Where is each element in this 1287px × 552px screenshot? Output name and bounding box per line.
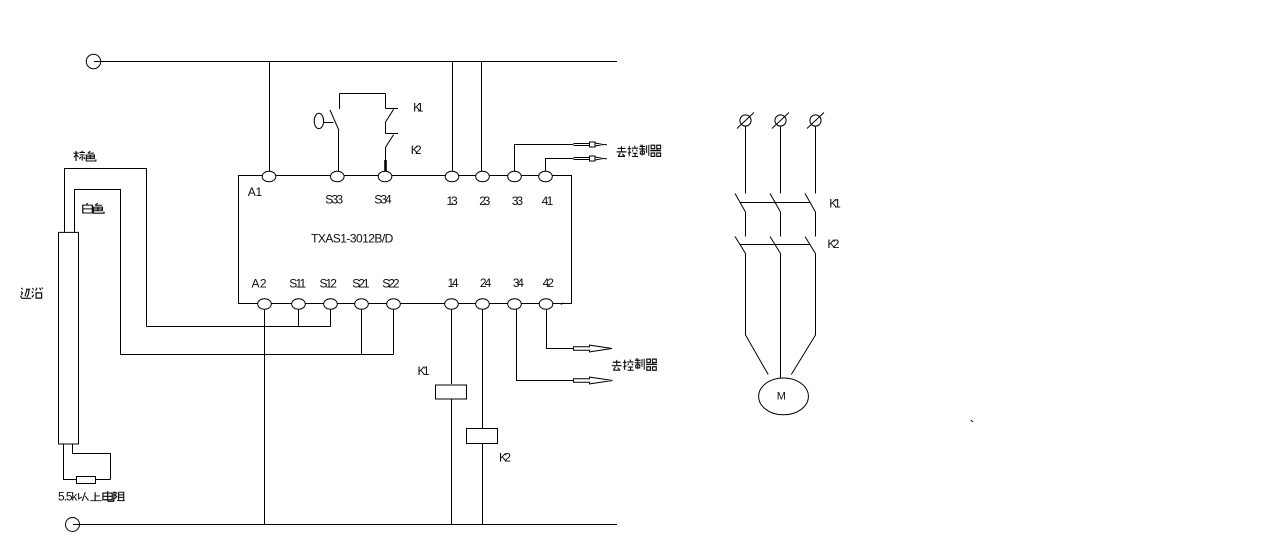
pin 24 bbox=[476, 299, 490, 310]
svg-text:24: 24 bbox=[480, 276, 492, 290]
contactor K1 linkage bar bbox=[741, 202, 811, 204]
svg-text:TXAS1-3012B/D: TXAS1-3012B/D bbox=[311, 231, 394, 245]
wire top supply rail bbox=[94, 61, 617, 63]
wire blade to S33 bbox=[338, 131, 340, 172]
svg-text:23: 23 bbox=[479, 194, 490, 208]
pushbutton SB actuator head bbox=[314, 113, 323, 128]
wire pin 24 to coil K2 bbox=[482, 309, 484, 429]
pin A1 bbox=[262, 171, 276, 182]
phase terminal L1 slash bbox=[737, 113, 754, 129]
wire node S11-S12 link bbox=[147, 326, 331, 328]
wire S33 upper lead bbox=[339, 94, 341, 110]
label 边沿 (edge) bbox=[20, 287, 42, 298]
svg-text:M: M bbox=[777, 391, 786, 403]
wire coil K1 to bottom rail bbox=[451, 399, 453, 525]
svg-text:5.5k: 5.5k bbox=[58, 489, 78, 503]
contact K2 (NC) fixed bar bbox=[386, 133, 399, 135]
stray tick mark bbox=[971, 420, 973, 422]
svg-text:13: 13 bbox=[447, 194, 459, 208]
pin 13 bbox=[445, 171, 459, 182]
pin S21 bbox=[355, 299, 369, 310]
svg-text:K1: K1 bbox=[829, 196, 841, 210]
wire K2 contact to S34 bbox=[385, 148, 387, 160]
label 去控制器 (to controller, upper) bbox=[617, 145, 662, 157]
wire L3 to K1 contact bbox=[815, 126, 817, 194]
contactor K2 pole 2 blade bbox=[770, 237, 781, 254]
pin 23 bbox=[476, 171, 490, 182]
connector arrow (from 41) bbox=[574, 156, 608, 161]
svg-text:A1: A1 bbox=[248, 185, 263, 199]
wire rail to A1 bbox=[269, 62, 271, 172]
wire node S21-S22 link bbox=[121, 354, 394, 356]
phase terminal L3 slash bbox=[807, 113, 824, 129]
wire sensor right bottom lead bbox=[73, 444, 111, 480]
pushbutton SB actuator link bbox=[324, 122, 334, 124]
wire sensor left bottom lead bbox=[64, 444, 77, 480]
svg-text:K1: K1 bbox=[413, 101, 424, 115]
wire thick lead into S34 bbox=[384, 160, 387, 171]
contact K1 (NC) fixed bar bbox=[386, 108, 399, 110]
pin 34 bbox=[508, 299, 522, 310]
wire K1 to K2 pole 2 bbox=[780, 212, 782, 237]
label 去控制器 (to controller, lower) bbox=[612, 358, 657, 370]
wire K2 pole3 to motor bbox=[791, 254, 815, 375]
contactor K2 linkage bar bbox=[741, 244, 811, 246]
resistor R1 (5.5k) body bbox=[77, 477, 96, 484]
relay coil K2 body bbox=[467, 429, 498, 444]
wire pin 34 to arrow bbox=[517, 309, 574, 381]
wire brown lead (sensor to S11/S12 net) bbox=[65, 169, 147, 327]
svg-text:K2: K2 bbox=[499, 451, 511, 465]
label 白色 (white) bbox=[83, 203, 104, 213]
wire S21 drop bbox=[361, 309, 363, 355]
phase terminal L3 bbox=[810, 115, 821, 126]
wire K2 pole1 to motor bbox=[746, 254, 769, 375]
safety relay U1 TXAS1-3012B/D body bbox=[239, 176, 572, 304]
svg-text:K1: K1 bbox=[418, 364, 430, 378]
wire resistor right lead bbox=[96, 479, 111, 481]
svg-text:41: 41 bbox=[542, 194, 554, 208]
pin 41 bbox=[539, 171, 553, 182]
contactor K2 pole 3 blade bbox=[805, 237, 816, 254]
wire bottom supply rail bbox=[73, 524, 617, 526]
pin S33 bbox=[331, 171, 345, 182]
pin S34 bbox=[378, 171, 392, 182]
svg-text:K2: K2 bbox=[411, 143, 422, 157]
wire S33 branch to K1K2 branch bbox=[340, 93, 386, 95]
wire pin 42 to arrow bbox=[547, 309, 574, 349]
pushbutton SB contact blade bbox=[330, 110, 339, 131]
connector arrow (from 42) bbox=[574, 345, 613, 352]
terminal L+ (top-left supply circle) bbox=[86, 54, 100, 68]
label 以上电阻 (resistor note) bbox=[79, 491, 125, 501]
contactor K1 pole 3 blade bbox=[805, 194, 816, 213]
svg-text:42: 42 bbox=[543, 276, 555, 290]
wire L1 to K1 contact bbox=[745, 126, 747, 194]
edge sensor B1 body bbox=[59, 232, 79, 444]
wire S22 drop bbox=[393, 309, 395, 355]
svg-text:S33: S33 bbox=[325, 193, 343, 207]
svg-text:K2: K2 bbox=[827, 237, 839, 251]
wire K2 pole2 to motor bbox=[780, 254, 782, 379]
phase terminal L2 slash bbox=[772, 113, 789, 129]
wire K1 contact upper lead bbox=[385, 94, 387, 109]
relay coil K1 body bbox=[436, 385, 467, 399]
pin 33 bbox=[508, 171, 522, 182]
wire pin 14 to coil K1 bbox=[451, 309, 453, 384]
wire L2 to K1 contact bbox=[780, 126, 782, 194]
svg-text:S34: S34 bbox=[374, 193, 392, 207]
svg-text:34: 34 bbox=[513, 276, 524, 290]
contactor K1 pole 2 blade bbox=[770, 194, 781, 213]
pin S22 bbox=[387, 299, 401, 310]
wire A2 to bottom rail bbox=[264, 309, 266, 525]
box bottom edge notch bbox=[561, 303, 564, 305]
wire coil K2 to bottom rail bbox=[482, 444, 484, 525]
phase terminal L1 bbox=[740, 115, 751, 126]
label 棕色 (brown) bbox=[74, 151, 96, 161]
wire S12 drop bbox=[330, 309, 332, 327]
contactor K2 pole 1 blade bbox=[735, 237, 746, 254]
contact K1 (NC) blade bbox=[385, 109, 393, 122]
pin S12 bbox=[324, 299, 338, 310]
pin 42 bbox=[539, 299, 553, 310]
wire S11 drop bbox=[298, 309, 300, 327]
pin S11 bbox=[292, 299, 306, 310]
pin 14 bbox=[445, 299, 459, 310]
phase terminal L2 bbox=[775, 115, 786, 126]
motor M body bbox=[759, 378, 809, 415]
svg-text:14: 14 bbox=[448, 276, 459, 290]
wire rail to pin 23 bbox=[481, 62, 483, 172]
contactor K1 pole 1 blade bbox=[735, 194, 746, 213]
svg-text:S22: S22 bbox=[382, 277, 400, 291]
pin A2 bbox=[258, 299, 272, 310]
svg-text:S21: S21 bbox=[352, 277, 370, 291]
wire white lead (sensor to S21/S22 net) bbox=[75, 190, 121, 355]
contact K2 (NC) blade bbox=[385, 135, 393, 148]
wire rail to pin 13 bbox=[452, 62, 454, 172]
svg-text:S12: S12 bbox=[320, 277, 338, 291]
wire pin 33 to arrow bbox=[515, 145, 574, 172]
svg-text:A2: A2 bbox=[252, 277, 267, 291]
svg-text:S11: S11 bbox=[289, 277, 306, 291]
wire K1 to K2 pole 1 bbox=[745, 212, 747, 237]
terminal L- (bottom-left supply circle) bbox=[66, 518, 80, 532]
wire K1 to K2 pole 3 bbox=[815, 212, 817, 237]
connector arrow (from 33) bbox=[574, 142, 608, 147]
wire K1 to K2 contact bbox=[385, 123, 387, 134]
svg-text:33: 33 bbox=[512, 194, 524, 208]
wire pin 41 to arrow bbox=[546, 159, 574, 172]
connector arrow (from 34) bbox=[574, 377, 613, 384]
